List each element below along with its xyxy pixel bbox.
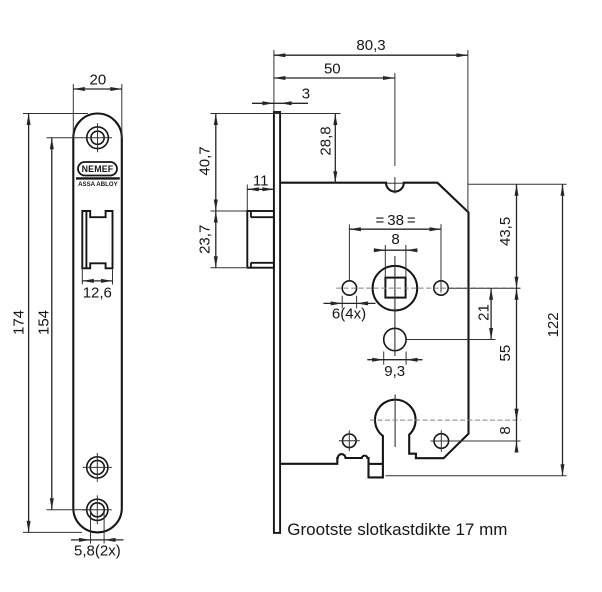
svg-text:NEMEF: NEMEF bbox=[82, 164, 114, 174]
svg-text:9,3: 9,3 bbox=[384, 363, 405, 380]
svg-text:40,7: 40,7 bbox=[196, 146, 213, 175]
svg-text:50: 50 bbox=[324, 61, 341, 78]
svg-text:23,7: 23,7 bbox=[196, 225, 213, 254]
svg-text:6(4x): 6(4x) bbox=[332, 306, 366, 323]
svg-text:3: 3 bbox=[302, 85, 310, 102]
svg-text:8: 8 bbox=[497, 426, 514, 434]
svg-text:12,6: 12,6 bbox=[83, 285, 112, 302]
svg-text:11: 11 bbox=[253, 173, 269, 190]
svg-text:Grootste slotkastdikte 17 mm: Grootste slotkastdikte 17 mm bbox=[287, 520, 507, 539]
svg-text:154: 154 bbox=[36, 310, 53, 335]
svg-text:= 38 =: = 38 = bbox=[375, 212, 415, 229]
svg-text:21: 21 bbox=[476, 304, 493, 321]
svg-text:5,8(2x): 5,8(2x) bbox=[74, 543, 121, 560]
svg-text:28,8: 28,8 bbox=[318, 126, 335, 155]
svg-text:55: 55 bbox=[497, 345, 514, 362]
svg-text:ASSA ABLOY: ASSA ABLOY bbox=[78, 181, 118, 188]
svg-text:20: 20 bbox=[90, 72, 107, 89]
svg-text:8: 8 bbox=[391, 231, 399, 248]
svg-text:43,5: 43,5 bbox=[497, 217, 514, 246]
svg-text:122: 122 bbox=[545, 312, 562, 337]
svg-text:174: 174 bbox=[11, 310, 28, 335]
svg-text:80,3: 80,3 bbox=[356, 37, 385, 54]
